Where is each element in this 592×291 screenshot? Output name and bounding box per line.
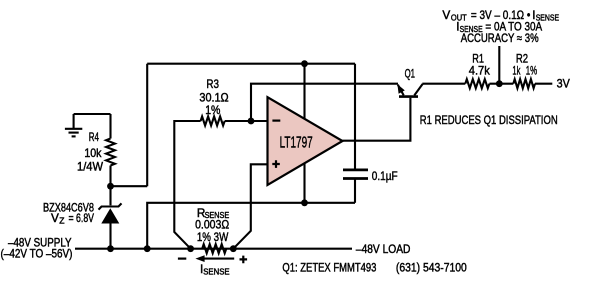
svg-text:= 6.8V: = 6.8V [69,211,95,225]
wire bottom V- rail [147,203,355,249]
svg-text:LT1797: LT1797 [280,134,313,151]
wire top rail [147,63,355,65]
junction dot V+ rail [301,60,308,67]
capacitor C1 0.1uF [343,168,368,171]
wire capacitor branch top [354,64,356,170]
svg-text:V: V [442,8,450,22]
svg-text:V: V [51,211,59,225]
svg-text:R3: R3 [206,77,219,91]
wire left vertical to top rail [146,64,148,187]
svg-text:Z: Z [59,215,64,225]
wire R4 bottom lead [109,166,111,206]
svg-text:SENSE: SENSE [203,267,230,277]
wire feedback node to Q1 emitter [251,84,398,121]
svg-text:3V: 3V [557,76,570,90]
resistor RSENSE [202,244,226,253]
label minus polarity [178,258,186,260]
wire ground to R4 top [74,113,111,115]
Q1 emitter arrowhead [397,84,404,94]
svg-text:–48V LOAD: –48V LOAD [356,242,411,256]
resistor R3 [201,117,225,126]
label plus polarity [240,256,248,264]
wire R1 to R2 [489,83,513,85]
svg-text:(–42V TO –56V): (–42V TO –56V) [1,246,73,260]
svg-text:(631) 543-7100: (631) 543-7100 [396,261,467,275]
svg-text:10k: 10k [84,146,101,160]
pin minus input [272,119,280,121]
svg-text:1% 3W: 1% 3W [197,230,229,244]
zener diode BZX84C6V8 [99,203,122,209]
junction dot V- branch / supply [144,245,151,252]
resistor R1 [465,79,489,88]
svg-text:R1 REDUCES Q1 DISSIPATION: R1 REDUCES Q1 DISSIPATION [420,113,558,127]
wire op-amp supply line [303,64,305,203]
junction dot RSENSE left [187,245,194,252]
arrowhead ISENSE [195,255,204,262]
svg-text:1/4W: 1/4W [77,159,104,173]
resistor R4 [106,139,115,166]
arrow ISENSE line [203,258,234,260]
pin plus input [272,160,280,168]
resistor R2 [513,79,535,88]
junction dot R4/zener [107,183,114,190]
svg-text:Q1: ZETEX FMMT493: Q1: ZETEX FMMT493 [282,261,376,275]
svg-text:0.1µF: 0.1µF [372,169,398,183]
wire right kelvin sense to noninverting input [233,164,267,248]
wire R2 to 3V [535,83,552,85]
wire -48V supply rail [75,248,352,250]
junction dot inverting input node [248,118,255,125]
svg-text:ACCURACY ≈ 3%: ACCURACY ≈ 3% [461,31,539,45]
svg-text:R4: R4 [89,130,99,144]
junction dot RSENSE right [230,245,237,252]
wire left kelvin sense to R3 [174,121,200,249]
junction dot R1/R2 sense node [496,80,503,87]
ground [73,114,75,129]
junction dot V- rail [301,199,308,206]
svg-text:Q1: Q1 [405,67,415,81]
svg-text:1k: 1k [512,64,520,78]
svg-text:1%: 1% [205,103,221,117]
wire sense node vertical [498,46,500,84]
wire Q1 collector to R1 [422,83,465,85]
wire op-amp output to Q1 base [343,98,411,141]
zener anode triangle [101,208,119,223]
junction dot zener anode / supply [107,245,114,252]
svg-text:1%: 1% [526,64,538,78]
node zener junction wire [111,185,148,187]
svg-text:4.7k: 4.7k [469,64,490,78]
transistor Q1 [399,95,418,98]
op-amp U1 LT1797 [268,97,343,185]
wire R3 to inverting input [225,120,268,122]
wire R4 top lead [109,114,111,139]
